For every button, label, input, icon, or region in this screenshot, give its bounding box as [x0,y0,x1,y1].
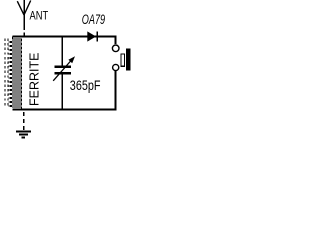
svg-text:FERRITE: FERRITE [28,53,42,106]
svg-text:365pF: 365pF [70,78,101,94]
svg-text:ANT: ANT [30,9,49,22]
svg-text:OA79: OA79 [82,13,106,27]
